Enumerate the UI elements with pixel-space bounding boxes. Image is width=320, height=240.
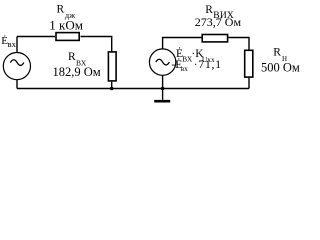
svg-text:R: R xyxy=(68,51,76,63)
svg-text:R: R xyxy=(273,47,281,59)
svg-text:182,9 Ом: 182,9 Ом xyxy=(53,65,101,79)
svg-text:1 кОм: 1 кОм xyxy=(49,17,83,32)
svg-text:·71,1: ·71,1 xyxy=(194,59,222,71)
svg-text:вх: вх xyxy=(8,39,17,49)
svg-text:R: R xyxy=(57,4,65,16)
svg-text:вх: вх xyxy=(181,64,189,73)
svg-text:500 Ом: 500 Ом xyxy=(261,60,300,74)
svg-text:273,7 Ом: 273,7 Ом xyxy=(195,15,242,29)
